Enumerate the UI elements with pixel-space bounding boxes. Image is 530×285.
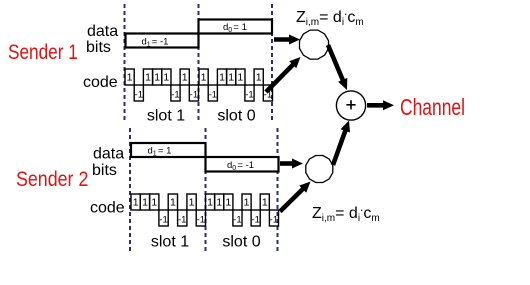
chip 5 (sender1 slot1) value 1 [162,69,171,85]
plus sign in adder [346,104,355,106]
svg-text:1: 1 [244,197,250,209]
chip 3 (sender2 slot0) value 1 [224,194,233,210]
data bit d0 = -1 box (sender 2) [206,157,279,172]
chip 7 (sender2 slot1) value 1 [187,194,196,210]
svg-text:-1: -1 [190,90,198,101]
wire arrow: multiplier U2 to adder [333,128,346,165]
chip 2 (sender2 slot1) value 1 [140,194,149,210]
wire arrow: multiplier U1 to adder [328,45,344,83]
slot boundary dashed line (sender 1, left) [124,4,126,122]
chip 7 (sender1 slot0) value 1 [254,69,263,85]
svg-text:1: 1 [207,197,213,209]
svg-text:slot 0: slot 0 [222,234,260,251]
chip 7 (sender2 slot0) value 1 [260,194,269,210]
svg-text:1: 1 [127,72,133,84]
slot boundary dashed line (sender 2, left) [129,128,131,252]
svg-text:1: 1 [163,72,169,84]
data bit d1 = 1 box (sender 2) [131,143,206,157]
slot boundary dashed line (sender 2, middle) [205,128,207,252]
svg-text:-1: -1 [209,90,217,101]
svg-text:-1: -1 [245,90,253,101]
svg-text:-1: -1 [270,215,278,226]
svg-text:code: code [90,200,125,217]
svg-text:data: data [93,146,124,163]
svg-text:d1= 1: d1= 1 [148,146,172,158]
chip 3 (sender2 slot1) value 1 [150,194,159,210]
svg-text:d1= -1: d1= -1 [142,36,169,48]
chip 2 (sender2 slot0) value 1 [215,194,224,210]
chip 1 (sender1 slot1) value 1 [125,69,134,85]
svg-text:data: data [87,23,118,40]
chip 6 (sender1 slot0) value -1 [245,85,254,101]
wire arrow: sender1 data bits to multiplier U1 [274,37,292,42]
svg-text:1: 1 [133,197,139,209]
svg-text:1: 1 [142,197,148,209]
svg-text:Sender 1: Sender 1 [8,42,78,65]
chip 5 (sender1 slot0) value 1 [236,69,245,85]
wire arrow: sender2 data bits to multiplier U2 [280,161,295,166]
chip 2 (sender1 slot1) value -1 [134,85,143,101]
chip 4 (sender2 slot0) value -1 [233,210,242,226]
svg-text:Zi,m= di.cm: Zi,m= di.cm [296,4,364,28]
chip 1 (sender2 slot0) value 1 [206,194,215,210]
svg-text:1: 1 [219,72,225,84]
chip 5 (sender2 slot1) value 1 [168,194,177,210]
svg-text:d0= 1: d0= 1 [223,22,247,34]
svg-text:Sender 2: Sender 2 [16,168,88,192]
svg-text:1: 1 [154,72,160,84]
chip 1 (sender1 slot0) value 1 [199,69,208,85]
wire arrow: sender1 code to multiplier U1 [266,63,295,93]
svg-text:-1: -1 [251,215,259,226]
svg-text:-1: -1 [171,90,179,101]
chip 7 (sender1 slot1) value 1 [180,69,189,85]
chip 4 (sender1 slot0) value 1 [227,69,236,85]
svg-text:1: 1 [189,197,195,209]
svg-text:Channel: Channel [400,94,465,120]
svg-text:1: 1 [216,197,222,209]
data bit d0 = 1 box (sender 1) [199,20,273,34]
wire arrow: adder to channel [367,103,386,108]
svg-text:1: 1 [151,197,157,209]
svg-text:bits: bits [86,39,111,56]
svg-text:1: 1 [228,72,234,84]
svg-text:code: code [83,74,118,91]
chip 4 (sender2 slot1) value -1 [159,210,168,226]
chip 6 (sender1 slot1) value -1 [171,85,180,101]
slot boundary dashed line (sender 2, right) [277,128,279,252]
chip 3 (sender1 slot1) value 1 [143,69,152,85]
slot boundary dashed line (sender 1, right) [271,4,273,122]
multiplier circle U2 (sender 2) [306,156,333,183]
svg-text:1: 1 [237,72,243,84]
multiplier circle U1 (sender 1) [300,30,329,59]
svg-text:-1: -1 [233,215,241,226]
svg-text:1: 1 [262,197,268,209]
svg-text:Zi,m= di.cm: Zi,m= di.cm [312,200,380,224]
svg-text:1: 1 [145,72,151,84]
adder circle [336,91,365,120]
chip 1 (sender2 slot1) value 1 [131,194,140,210]
data bit d1 = -1 box (sender 1) [126,34,199,48]
chip 8 (sender2 slot0) value -1 [269,210,278,226]
svg-text:-1: -1 [178,215,186,226]
svg-text:1: 1 [225,197,231,209]
chip 8 (sender1 slot0) value -1 [263,85,272,101]
svg-text:-1: -1 [135,90,143,101]
chip 8 (sender1 slot1) value -1 [189,85,198,101]
svg-text:1: 1 [182,72,188,84]
chip 4 (sender1 slot1) value 1 [153,69,162,85]
wire arrow: sender2 code to multiplier U2 [280,187,305,212]
svg-text:slot 1: slot 1 [151,234,189,251]
chip 5 (sender2 slot0) value 1 [242,194,251,210]
svg-text:-1: -1 [159,215,167,226]
slot boundary dashed line (sender 1, middle) [198,4,200,122]
svg-text:-1: -1 [197,215,205,226]
svg-text:d0= -1: d0= -1 [227,160,254,172]
svg-text:bits: bits [92,162,117,179]
chip 6 (sender2 slot1) value -1 [178,210,187,226]
svg-text:1: 1 [256,72,262,84]
svg-text:slot 0: slot 0 [217,108,255,125]
chip 3 (sender1 slot0) value 1 [217,69,226,85]
svg-text:1: 1 [170,197,176,209]
svg-text:1: 1 [201,72,207,84]
chip 2 (sender1 slot0) value -1 [208,85,217,101]
chip 8 (sender2 slot1) value -1 [196,210,205,226]
chip 6 (sender2 slot0) value -1 [251,210,260,226]
svg-text:slot 1: slot 1 [147,108,185,125]
